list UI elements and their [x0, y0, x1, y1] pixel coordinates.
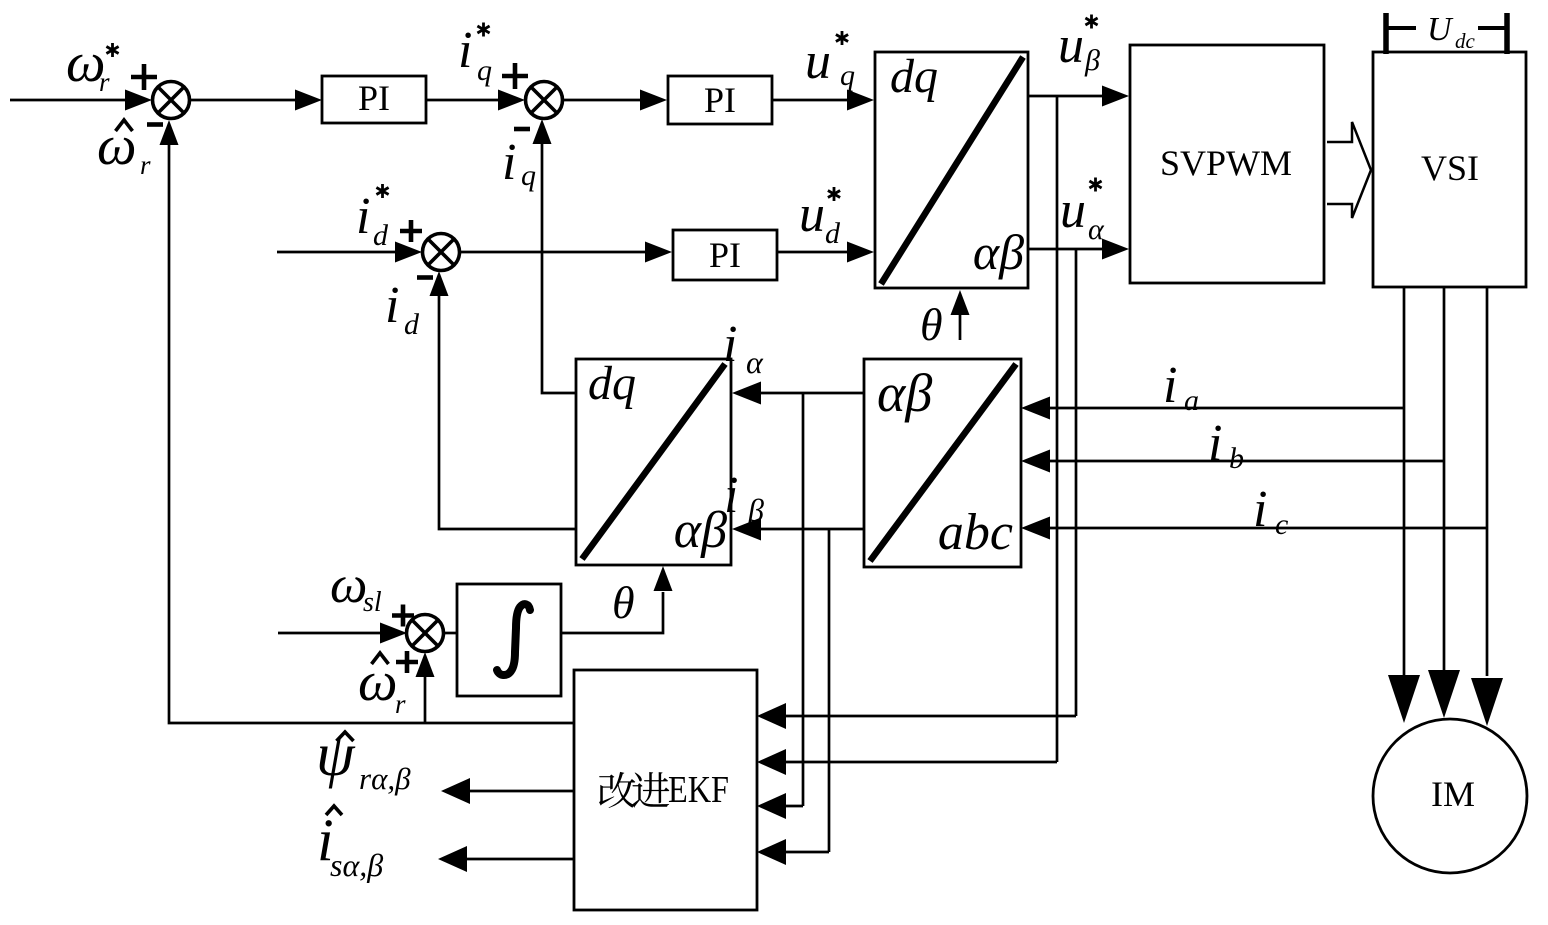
svg-text:αβ: αβ [973, 224, 1024, 280]
svg-text:i: i [385, 277, 399, 334]
motor IM [1373, 719, 1527, 873]
wire psi_r output [470, 790, 574, 793]
svg-text:αβ: αβ [674, 502, 727, 559]
wire i_beta branch down [828, 529, 831, 852]
double hollow arrow SVPWM to VSI [1327, 122, 1371, 218]
label i_beta [724, 467, 764, 528]
svg-text:u: u [805, 33, 831, 90]
block dq2 alphabeta-to-dq [576, 357, 731, 565]
summing junction J1 [153, 82, 190, 119]
block SVPWM [1130, 45, 1324, 283]
label u_q* [805, 31, 855, 92]
block improved EKF [574, 670, 757, 910]
svg-text:r: r [140, 150, 151, 180]
wire PI1 to J2 [426, 99, 499, 102]
svg-text:a: a [1184, 384, 1199, 417]
wire i_s output [467, 858, 574, 861]
svg-text:β: β [1084, 44, 1100, 77]
wire omega_r hat branch to J4 [424, 677, 427, 723]
svg-text:i: i [1208, 415, 1222, 472]
wire i_alpha branch down [802, 393, 805, 806]
wire omega_r hat EKF to J1 [169, 144, 574, 723]
sign plus J4 lower [396, 651, 418, 673]
label omega_r hat at J4 [358, 651, 406, 719]
block PI1 [322, 76, 426, 123]
label i_alpha [723, 316, 764, 380]
block alphabeta-abc [864, 359, 1021, 567]
label i_b [1208, 415, 1244, 475]
label psi_r alpha,beta hat [316, 721, 411, 796]
svg-text:i: i [724, 467, 738, 524]
wire u_alpha* to SVPWM [1028, 248, 1103, 251]
label i_d feedback [385, 277, 420, 341]
sign plus J1 [131, 64, 157, 90]
svg-text:u: u [799, 186, 825, 243]
wire phase a VSI to IM [1403, 287, 1406, 676]
block VSI [1373, 52, 1526, 287]
svg-text:sl: sl [363, 587, 382, 618]
label i_c [1253, 481, 1288, 541]
svg-text:α: α [1088, 213, 1105, 246]
svg-text:θ: θ [612, 577, 635, 628]
label i_a [1163, 357, 1199, 417]
svg-text:i: i [1253, 481, 1267, 538]
sign minus J2 [514, 127, 530, 132]
svg-text:c: c [1275, 508, 1288, 541]
wire PI3 to dq1 u_d* [777, 251, 848, 254]
wire phase b VSI to IM [1443, 287, 1446, 676]
wire i_d* input [277, 251, 396, 254]
wire J1 to PI1 [190, 99, 296, 102]
label u_d* [799, 186, 841, 250]
label omega_sl [330, 556, 382, 618]
svg-text:q: q [521, 159, 536, 192]
sign plus J4 upper [392, 605, 414, 627]
wire J3 to PI3 [460, 251, 646, 254]
block integrator [457, 584, 561, 696]
svg-text:i: i [723, 316, 737, 373]
label i_q* [458, 22, 492, 87]
wire i_alpha [761, 392, 864, 395]
svg-text:q: q [840, 59, 855, 92]
svg-text:ω: ω [358, 651, 398, 713]
block PI3 [673, 230, 777, 280]
wire u_beta* to SVPWM [1028, 95, 1103, 98]
sign minus J1 [147, 122, 163, 127]
svg-text:VSI: VSI [1421, 148, 1479, 188]
svg-text:abc: abc [938, 504, 1013, 561]
svg-text:PI: PI [709, 235, 741, 275]
svg-text:d: d [373, 219, 389, 252]
svg-text:ω: ω [330, 556, 367, 614]
svg-text:ψ: ψ [316, 721, 356, 789]
svg-text:i: i [502, 134, 516, 191]
svg-text:PI: PI [358, 78, 390, 118]
label i_s alpha,beta hat [317, 806, 383, 883]
svg-text:i: i [356, 188, 370, 245]
summing junction J2 [526, 82, 563, 119]
sign minus J3 [417, 275, 433, 280]
svg-text:q: q [477, 54, 492, 87]
wire i_b [1050, 460, 1444, 463]
sign plus J2 [502, 63, 528, 89]
summing junction J4 [407, 615, 444, 652]
summing junction J3 [423, 234, 460, 271]
svg-text:αβ: αβ [877, 363, 932, 423]
sign plus J3 [400, 220, 422, 242]
svg-text:β: β [747, 492, 764, 528]
label omega_r* [66, 32, 119, 97]
svg-text:d: d [825, 217, 841, 250]
wire EKF input i_alpha [786, 805, 803, 808]
wire omega_sl input [278, 632, 381, 635]
wire phase c VSI to IM [1486, 287, 1489, 676]
svg-text:θ: θ [920, 299, 943, 350]
block PI2 [668, 76, 772, 124]
svg-text:dc: dc [1455, 29, 1476, 53]
label i_q feedback [502, 134, 536, 192]
wire i_a [1050, 407, 1404, 410]
svg-text:IM: IM [1431, 774, 1475, 814]
theta input dq2 with wire from integrator [561, 566, 673, 633]
svg-text:r: r [99, 67, 110, 97]
svg-text:dq: dq [890, 50, 938, 103]
wire u_beta* branch down [1056, 96, 1059, 762]
label i_d* [356, 184, 389, 252]
svg-text:i: i [458, 22, 472, 79]
label omega_r hat feedback [97, 115, 151, 180]
svg-text:i: i [1163, 357, 1177, 414]
wire J2 to PI2 [563, 99, 641, 102]
U_dc measurement [1386, 11, 1507, 54]
svg-text:U: U [1427, 11, 1454, 48]
wire i_q feedback dq2 to J2 [542, 143, 576, 393]
wire u_alpha* branch down [1075, 249, 1078, 716]
svg-text:sα,β: sα,β [330, 847, 383, 883]
wire i_d feedback dq2 to J3 [439, 295, 576, 529]
wire EKF input i_beta [786, 851, 829, 854]
svg-text:b: b [1229, 442, 1244, 475]
block dq1 dq-to-alphabeta [875, 50, 1028, 288]
svg-text:d: d [404, 308, 420, 341]
wire J4 to integrator [444, 632, 457, 635]
wire i_beta [761, 528, 864, 531]
wire omega_r* input [10, 99, 127, 102]
svg-text:α: α [746, 344, 764, 380]
svg-text:ω: ω [97, 115, 137, 177]
wire i_c [1050, 527, 1487, 530]
wire EKF input u_alpha* [786, 715, 1076, 718]
svg-text:u: u [1060, 182, 1086, 239]
svg-text:SVPWM: SVPWM [1160, 143, 1292, 183]
label u_alpha* [1060, 178, 1105, 247]
svg-text:u: u [1058, 17, 1084, 74]
svg-text:EKF: EKF [668, 769, 729, 811]
svg-text:dq: dq [588, 357, 636, 410]
wire EKF input u_beta* [786, 761, 1057, 764]
svg-text:rα,β: rα,β [359, 761, 411, 796]
wire PI2 to dq1 u_q* [772, 99, 848, 102]
svg-text:PI: PI [704, 80, 736, 120]
svg-text:r: r [395, 689, 406, 719]
label u_beta* [1058, 15, 1100, 78]
theta input stub dq1 [920, 290, 970, 350]
